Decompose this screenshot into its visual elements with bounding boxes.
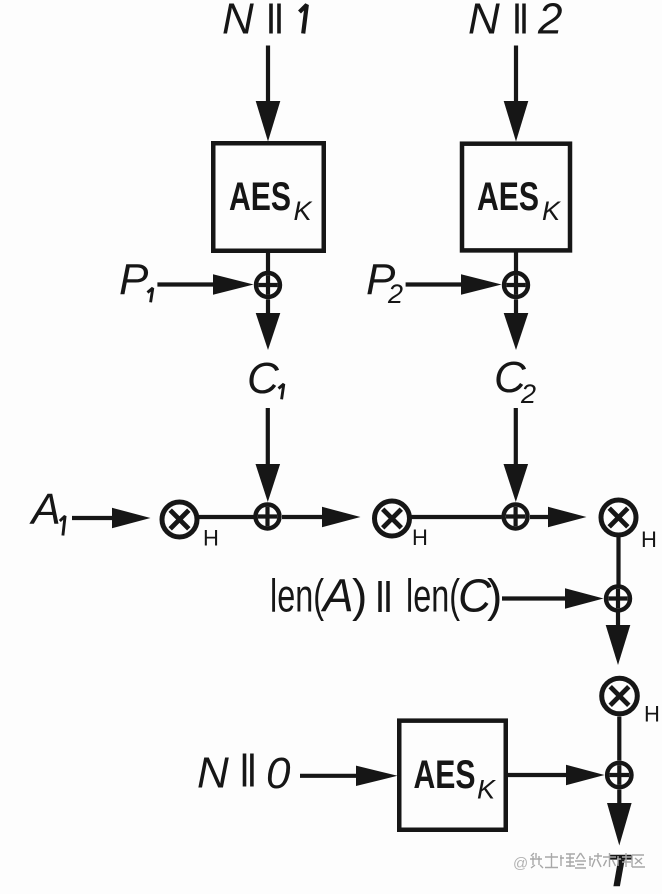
wire xor2 down [514, 299, 518, 314]
wire gmul4 to finalxor [617, 717, 621, 761]
wire P1 to xor1 [157, 282, 214, 286]
svg-text:2: 2 [537, 0, 562, 44]
wire chainxor2 to gmul3 [530, 515, 549, 519]
arrowhead P2 to xor2 [461, 274, 502, 294]
arrowhead into chain xor2 [504, 464, 529, 502]
xor X4 chain [504, 505, 528, 529]
xor X3 chain [256, 505, 280, 529]
wire chainxor1 to gmul2 [282, 515, 323, 519]
svg-text:P: P [119, 255, 149, 304]
wire C2 to chain xor2 [514, 408, 518, 465]
xor X2 (P2 xor AES output) [504, 273, 528, 297]
watermark [513, 855, 528, 872]
block AES_K U2 [462, 144, 570, 251]
svg-text:A: A [29, 485, 61, 534]
wire gmul1 to chainxor1 [199, 515, 254, 519]
svg-text:H: H [644, 702, 660, 727]
wire gmul3 down to lenxor [616, 537, 620, 585]
label P1 [119, 255, 153, 304]
arrowhead to T [607, 803, 632, 846]
svg-text:N: N [222, 0, 254, 44]
concat bars of N||2 [515, 4, 519, 34]
arrowhead to C1 [256, 313, 281, 350]
svg-text:K: K [477, 775, 496, 805]
block AES_K U3 [399, 721, 506, 830]
wire gmul2 to chainxor2 [411, 515, 502, 519]
label AES_K U2 [477, 175, 561, 226]
svg-text:): ) [352, 570, 367, 622]
svg-text:K: K [294, 196, 313, 226]
label AES_K U3 [414, 753, 497, 805]
label C2 [494, 353, 536, 409]
arrowhead into AES2 [504, 101, 529, 142]
gmul G3 (mult by H) [601, 500, 636, 535]
wire A1 to gmul1 [72, 516, 114, 520]
wire AES1 to xor1 [266, 253, 270, 271]
svg-text:@: @ [513, 855, 528, 872]
arrowhead into lenxor [565, 588, 604, 608]
svg-text:len(: len( [270, 570, 324, 622]
label N||0 [197, 749, 291, 799]
label P2 [366, 255, 403, 309]
label C1 [247, 354, 284, 403]
svg-text:AES: AES [477, 175, 539, 219]
arrowhead to C2 [504, 313, 529, 350]
svg-text:N: N [197, 749, 229, 798]
svg-text:C: C [247, 354, 280, 403]
arrowhead P1 to xor1 [213, 274, 254, 294]
xor X6 final [607, 763, 631, 787]
svg-text:K: K [542, 196, 561, 226]
concat bars of N||1 [269, 4, 273, 34]
svg-text:2: 2 [520, 379, 536, 409]
xor X5 (len xor) [606, 587, 630, 611]
block AES_K U1 [213, 143, 324, 251]
label AES_K U1 [229, 175, 313, 226]
wire finalxor down [617, 790, 621, 805]
arrowhead into chain xor1 [256, 464, 281, 502]
label A1 [29, 485, 66, 536]
wire lenxor down [616, 612, 620, 626]
arrowhead into AES1 [256, 101, 281, 142]
wire N||1 to AES1 [266, 46, 270, 103]
svg-text:H: H [641, 527, 657, 552]
svg-text:len(: len( [406, 570, 460, 622]
wire AES2 to xor2 [514, 253, 518, 272]
svg-text:N: N [468, 0, 500, 44]
svg-text:AES: AES [414, 753, 476, 797]
node N||2 label [468, 0, 562, 44]
wire xor1 down [266, 299, 270, 314]
gmul G2 (mult by H) [375, 501, 410, 536]
label len(A) || len(C) [270, 570, 502, 622]
svg-text:H: H [203, 526, 219, 551]
arrowhead into gmul3 [548, 507, 587, 527]
svg-text:2: 2 [387, 279, 403, 309]
gmul G1 (mult by H) [162, 502, 197, 537]
svg-text:0: 0 [266, 749, 291, 798]
arrowhead into gmul2 [322, 507, 361, 527]
arrowhead into AES3 [356, 766, 398, 786]
svg-text:A: A [320, 570, 354, 622]
xor X1 (P1 xor AES output) [256, 273, 280, 297]
arrowhead A1 to gmul1 [112, 508, 151, 528]
wire AES3 to finalxor [508, 773, 567, 777]
concat bars of N||0 [243, 754, 247, 787]
wire len to lenxor [502, 596, 566, 600]
label T output tag [610, 855, 632, 887]
wire P2 to xor2 [406, 282, 462, 286]
wire C1 to chain xor [266, 408, 270, 465]
svg-text:AES: AES [229, 175, 291, 219]
wire N||0 to AES3 [300, 774, 357, 778]
svg-text:): ) [487, 570, 502, 622]
node N||1 label [222, 0, 307, 44]
wire N||2 to AES2 [514, 46, 518, 103]
arrowhead into gmul4 [606, 625, 631, 665]
arrowhead into finalxor [566, 765, 605, 785]
concat bars of len(A)||len(C) [378, 581, 382, 612]
svg-text:H: H [412, 525, 428, 550]
gmul G4 (mult by H) [602, 678, 638, 714]
